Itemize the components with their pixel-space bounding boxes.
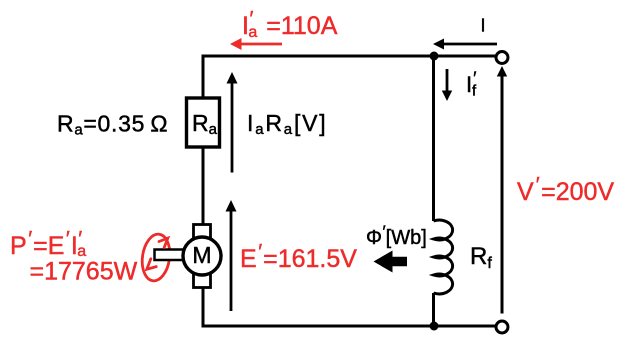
rotation arrow heads (red) [147,238,168,269]
arrow: IaRa voltage (up) [227,72,238,173]
svg-text:I: I [480,16,485,36]
svg-text:Φ′[Wb]: Φ′[Wb] [366,222,427,249]
arrow: E' emf (up) [226,200,237,311]
resistor Ra [187,98,220,147]
svg-text:=17765W: =17765W [30,258,138,286]
terminal: top-right open circle [496,52,508,64]
wire: left vertical middle segment (resistor to motor) [202,147,205,225]
svg-text:M: M [192,242,211,268]
svg-text:V′=200V: V′=200V [517,174,614,207]
svg-text:P′=E′I′a: P′=E′I′a [10,228,86,261]
rotation arrow ellipse (red, around shaft) [139,232,172,282]
node: junction dot bottom [430,322,439,331]
inductor Rf coil [434,220,453,294]
label P'=E'I'a =17765W (red) [10,228,138,286]
wire: top horizontal from left branch to positive terminal [203,55,495,58]
wire: left vertical bottom segment (motor to bottom wire) [202,288,205,328]
wire: field branch vertical, top segment [432,56,435,221]
arrow: current I (black, pointing left) [433,39,497,50]
arrow: I'f (down) [442,69,452,101]
wire: right vertical with V' arrow [497,66,507,314]
svg-text:I′f: I′f [466,69,477,100]
arrow: I'a current (red, pointing left) [230,38,282,50]
wire: bottom horizontal [203,325,495,328]
svg-text:Ra=0.35 Ω: Ra=0.35 Ω [57,111,168,139]
node: junction dot top [430,52,439,61]
wire: field branch vertical, bottom segment [432,293,435,326]
arrow: flux (thick, pointing left) [374,251,408,273]
wire: left vertical top segment (top wire to resistor) [202,55,205,99]
motor M [155,225,222,288]
terminal: bottom-right open circle [496,321,508,333]
